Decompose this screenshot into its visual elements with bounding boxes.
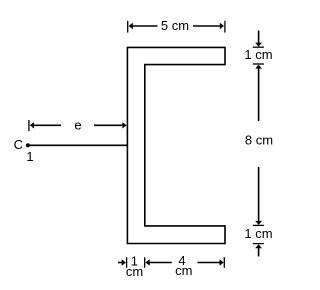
dim 1 cm (web, bottom): left tick: [126, 257, 128, 268]
svg-text:1 cm: 1 cm: [244, 226, 272, 241]
dim 1 cm bottom: tick at flange top: [253, 224, 264, 226]
svg-text:cm: cm: [175, 263, 192, 278]
dim 5 cm: left extension tick: [127, 21, 129, 33]
dim 1 cm (web, bottom): left leader line: [118, 262, 123, 264]
dim 4 cm bottom: right tick: [223, 257, 225, 268]
svg-text:e: e: [74, 117, 81, 132]
dim 5 cm: left line segment: [132, 25, 158, 27]
dim 8 cm: upper line segment: [258, 68, 260, 122]
dim 5 cm: right extension tick: [224, 21, 226, 33]
centroid dot: [26, 143, 30, 147]
dim 1 cm (web, bottom): right tick: [144, 257, 146, 268]
svg-text:1 cm: 1 cm: [244, 47, 272, 62]
dim e: right line segment: [94, 124, 123, 126]
dim 1 cm bottom: tick at flange bottom: [253, 243, 264, 245]
centroid axis line 1-1: [28, 144, 127, 146]
svg-text:1: 1: [26, 149, 33, 164]
dim e: left extension tick: [28, 120, 30, 131]
dim 1 cm top: tick at flange top: [253, 46, 264, 48]
dim 8 cm: lower line segment: [258, 167, 260, 222]
dim e: left arrowhead: [30, 122, 34, 128]
dim 1 cm (web, bottom): right arrowhead: [122, 259, 126, 265]
svg-text:cm: cm: [126, 264, 143, 279]
dim 8 cm: up arrowhead: [255, 65, 262, 69]
dim 4 cm bottom: left arrowhead: [146, 259, 150, 265]
dim 4 cm bottom: left line segment: [149, 262, 172, 264]
dim 5 cm: left arrowhead: [129, 23, 133, 29]
dim 4 cm bottom: right line segment: [198, 262, 221, 264]
dim 5 cm: right line segment: [193, 25, 221, 27]
channel section outline: [127, 47, 225, 243]
dim 1 cm bottom: lower leader line: [258, 247, 260, 256]
dim 4 cm bottom: right arrowhead: [220, 259, 224, 265]
dim 5 cm: right arrowhead: [220, 23, 224, 29]
svg-text:5 cm: 5 cm: [161, 18, 189, 33]
svg-text:8 cm: 8 cm: [245, 132, 273, 147]
dim 1 cm bottom: up arrowhead: [255, 244, 262, 248]
dim 1 cm top: down arrowhead: [255, 43, 262, 47]
svg-text:C: C: [14, 137, 23, 152]
dim e: left line segment: [33, 124, 61, 126]
dim e: right arrowhead: [122, 122, 126, 128]
dim 1 cm top: tick at flange bottom: [253, 63, 264, 65]
dim 1 cm top: upper leader line: [258, 31, 260, 44]
dim 8 cm: down arrowhead: [255, 221, 262, 225]
